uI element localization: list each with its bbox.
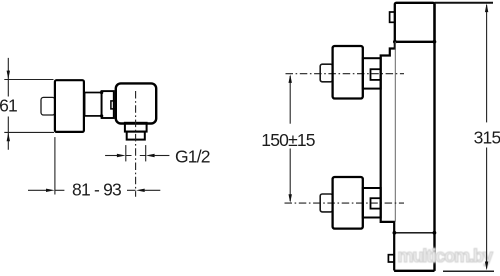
81-93 inner stub left	[55, 189, 65, 191]
81-93 dimension line right arrowhead and tail	[136, 189, 145, 192]
top edge extension line for 315	[435, 2, 494, 4]
G1/2 right extension line	[145, 145, 147, 161]
315 dimension line upper segment with up arrowhead	[486, 5, 488, 122]
bottom handle centerline	[285, 202, 405, 204]
handle knob cap (side view)	[41, 97, 55, 115]
81-93 dimension line left tail with arrowhead	[28, 189, 47, 191]
column left outline with escutcheon steps and foot	[381, 42, 395, 271]
G1/2 dimension line right tail with arrowhead	[146, 154, 155, 157]
dimension 61 bottom arrowhead	[7, 133, 10, 142]
dimension 61 vertical dimension line	[7, 58, 9, 150]
column bottom edge (over watermark)	[394, 270, 434, 272]
top handle screw square	[371, 69, 381, 80]
foot divider junction dots	[393, 231, 397, 235]
divider junction dots	[393, 40, 397, 44]
G1/2 inner stubs	[126, 155, 146, 157]
inner thin vertical line (front face edge)	[394, 42, 396, 222]
81-93 left extension line	[54, 137, 56, 194]
G1/2 left extension line	[125, 145, 127, 161]
bottom handle knob	[333, 177, 363, 229]
outlet centerline	[135, 91, 137, 197]
outlet step 1	[125, 123, 147, 132]
top handle flange	[363, 58, 381, 88]
bottom handle flange	[363, 188, 381, 218]
315 dimension line lower segment with down arrowhead	[486, 148, 488, 269]
top handle knob	[333, 46, 363, 99]
valve body (side view)	[116, 83, 156, 123]
watermark multicom.by	[398, 246, 492, 267]
head divider line	[395, 41, 435, 43]
bottom extension line for 315 (over watermark)	[443, 270, 494, 272]
junction dots neck	[100, 91, 103, 94]
neck section 1	[85, 93, 102, 116]
dimension 61 bottom extension line	[4, 131, 54, 133]
81-93 inner stub right	[127, 189, 136, 191]
dimension 61 top arrowhead	[7, 71, 10, 80]
top handle centerline	[286, 73, 405, 75]
column right edge	[433, 3, 435, 271]
outlet step 2	[127, 132, 145, 140]
150±15 dimension line upper segment with up arrowhead	[289, 76, 291, 124]
foot divider line	[394, 232, 434, 234]
bottom handle cap	[320, 194, 332, 212]
bottom handle screw square	[371, 198, 381, 208]
dimension 61 top extension line	[4, 79, 53, 81]
head wall tab	[390, 12, 395, 22]
bottom wall tab	[388, 255, 394, 262]
G1/2 dimension line left tail with arrowhead	[105, 155, 117, 157]
column head	[395, 3, 435, 42]
neck section 2	[102, 91, 114, 118]
small notch on body left	[111, 101, 116, 109]
top handle cap	[320, 64, 332, 82]
150±15 dimension line lower segment with down arrowhead	[289, 149, 291, 202]
column bottom edge	[394, 270, 434, 272]
handle body (side view)	[55, 80, 84, 132]
